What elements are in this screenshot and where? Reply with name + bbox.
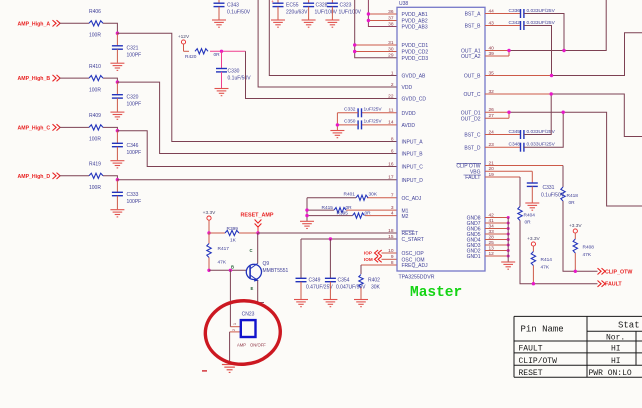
svg-text:R402: R402	[368, 278, 380, 284]
ground C328	[302, 20, 316, 27]
wire Q9 collector	[257, 233, 259, 263]
ground EC55	[271, 20, 285, 27]
svg-text:Q9: Q9	[263, 261, 270, 267]
wire PVDD_CD rail	[355, 0, 397, 58]
ground C321	[110, 63, 124, 70]
wire R418 to CLIP_OTW signal	[563, 201, 598, 271]
svg-text:C328: C328	[316, 3, 328, 9]
svg-text:R401: R401	[344, 191, 356, 197]
wire R409 to junction	[103, 127, 117, 130]
wire top rail to VDD pin 2	[258, 0, 397, 87]
svg-text:OUT_D1: OUT_D1	[461, 110, 481, 116]
svg-text:R415: R415	[322, 205, 334, 211]
resistor R417 47K	[208, 233, 210, 244]
node CN23 branch	[229, 269, 232, 272]
svg-text:R408: R408	[583, 245, 595, 251]
wire Q9 emitter	[257, 280, 259, 304]
connector CN23	[241, 320, 256, 337]
svg-text:38: 38	[388, 21, 394, 27]
wire R420 to GVDD_CD pin 22	[246, 51, 398, 98]
svg-text:36: 36	[388, 9, 394, 15]
ground C332 C350	[330, 131, 344, 138]
ground C331	[525, 203, 539, 210]
wire AMP_High_D to R419	[60, 175, 90, 177]
capacitor C354 0.047UF/50V	[329, 239, 331, 278]
svg-text:R419: R419	[89, 162, 101, 168]
svg-text:R417: R417	[218, 246, 230, 252]
svg-text:C333: C333	[127, 192, 139, 198]
svg-text:220u/63V: 220u/63V	[286, 10, 308, 16]
svg-text:100PF: 100PF	[127, 53, 142, 59]
svg-text:Master: Master	[410, 285, 462, 301]
svg-text:C346: C346	[127, 143, 139, 149]
svg-text:C: C	[250, 248, 253, 253]
wire CN23 pin 2 to ground	[230, 331, 241, 333]
svg-text:R406: R406	[89, 9, 101, 15]
svg-text:BST_D: BST_D	[464, 145, 481, 151]
svg-text:OUT_C: OUT_C	[464, 92, 481, 98]
svg-text:7: 7	[391, 193, 394, 199]
wire FAULT from pin 19	[485, 176, 520, 178]
svg-text:HI: HI	[611, 357, 621, 366]
svg-text:14: 14	[388, 120, 394, 126]
svg-text:0.47UF/25V: 0.47UF/25V	[306, 285, 333, 291]
resistor R399 1K	[209, 232, 225, 234]
capacitor C328 1UF/100V	[308, 0, 310, 3]
svg-text:INPUT_B: INPUT_B	[402, 152, 424, 158]
svg-text:0.1uF/50V: 0.1uF/50V	[227, 10, 251, 16]
power +3.3V R408	[573, 229, 577, 233]
svg-text:100R: 100R	[89, 33, 101, 39]
node OUT_A BST	[562, 49, 565, 52]
svg-text:BST_B: BST_B	[465, 24, 482, 30]
svg-text:C343: C343	[227, 3, 239, 9]
capacitor C332 1uF/25V	[358, 108, 361, 117]
wire BST_A to OUT_A	[524, 14, 564, 51]
svg-text:C342: C342	[509, 20, 521, 26]
junction node AMP_High_D	[116, 178, 119, 181]
svg-text:RESET: RESET	[519, 369, 543, 378]
ground C346	[110, 161, 124, 168]
svg-text:EC55: EC55	[286, 3, 299, 9]
svg-text:BST_A: BST_A	[465, 12, 482, 18]
wire INPUT_D route	[117, 179, 397, 181]
capacitor EC55 220u/63V electrolytic	[277, 0, 279, 3]
svg-text:47K: 47K	[541, 265, 550, 271]
svg-text:IOP: IOP	[364, 251, 372, 256]
wire OUT_A2 join	[485, 55, 509, 57]
svg-text:PWR ON:LO: PWR ON:LO	[589, 369, 632, 378]
capacitor C320 100PF	[116, 82, 118, 95]
wire OUT_B	[485, 75, 552, 77]
svg-text:30K: 30K	[369, 191, 378, 197]
svg-text:C354: C354	[338, 278, 350, 284]
node M1 junction	[305, 208, 308, 211]
svg-text:0R: 0R	[214, 52, 221, 58]
junction node AMP_High_B	[116, 80, 119, 83]
capacitor C331 0.1uF/50V	[527, 183, 538, 186]
svg-text:OUT_D2: OUT_D2	[461, 117, 481, 123]
svg-text:AMP_High_B: AMP_High_B	[18, 76, 51, 82]
node AVDD gnd junction	[336, 123, 339, 126]
capacitor C348 0.033UF/25V BST_D	[485, 146, 521, 148]
svg-text:C323: C323	[340, 3, 352, 9]
svg-text:C345: C345	[509, 129, 521, 135]
wire VBG pin 20	[485, 170, 532, 172]
svg-text:C320: C320	[127, 95, 139, 101]
resistor R404 0R	[518, 207, 522, 221]
junction node AMP_High_A	[116, 32, 119, 35]
svg-text:INPUT_D: INPUT_D	[402, 178, 424, 184]
node R399 left	[207, 231, 210, 234]
svg-text:100R: 100R	[89, 137, 101, 143]
svg-text:100R: 100R	[89, 185, 101, 191]
wire RESET to IC pin 18	[258, 232, 397, 234]
svg-text:Nor.: Nor.	[606, 334, 625, 343]
node base junction	[207, 269, 210, 272]
node RESET junction	[256, 231, 259, 234]
wire OC_ADJ M1 M2 to ground	[306, 198, 308, 221]
svg-text:+: +	[271, 0, 274, 4]
svg-text:B: B	[231, 264, 234, 269]
resistor R420 0R	[195, 49, 208, 54]
wire OUT_C	[485, 93, 551, 95]
wire BST_C to OUT_C	[524, 94, 551, 135]
svg-text:47K: 47K	[218, 260, 227, 266]
svg-text:100R: 100R	[89, 87, 101, 93]
transistor Q9 MMBT5551	[246, 263, 261, 281]
wire R420 to node	[210, 50, 246, 52]
svg-text:Stat: Stat	[618, 321, 640, 331]
svg-text:FAULT: FAULT	[605, 282, 622, 288]
svg-text:29: 29	[388, 53, 394, 59]
svg-text:CLIP_OTW: CLIP_OTW	[605, 269, 632, 275]
ground C333	[110, 210, 124, 217]
capacitor C330 0.1uF/50V	[221, 51, 223, 68]
svg-text:C336: C336	[509, 8, 521, 14]
svg-text:1UF/100V: 1UF/100V	[315, 10, 338, 16]
node OUT_D BST	[562, 111, 565, 114]
svg-text:C330: C330	[228, 69, 240, 75]
wire INPUT_B route	[117, 82, 397, 153]
svg-text:2: 2	[231, 328, 236, 331]
junction node VDD12	[220, 50, 223, 53]
resistor R402 30K on FREQ_ADJ	[361, 264, 397, 266]
svg-text:INPUT_C: INPUT_C	[402, 165, 424, 171]
svg-text:MMBT5551: MMBT5551	[263, 268, 289, 274]
svg-text:0.1uF/50V: 0.1uF/50V	[228, 76, 252, 82]
svg-text:0R: 0R	[569, 200, 576, 206]
svg-text:PVDD_CD1: PVDD_CD1	[402, 43, 429, 49]
capacitor C349 0.47UF/25V	[300, 239, 302, 278]
svg-text:R395: R395	[337, 211, 349, 217]
svg-text:FREQ_ADJ: FREQ_ADJ	[402, 263, 429, 269]
svg-text:0R: 0R	[365, 211, 372, 217]
svg-text:PVDD_CD2: PVDD_CD2	[402, 50, 429, 56]
capacitor C346 100PF	[116, 131, 118, 144]
svg-text:1uF/25V: 1uF/25V	[364, 119, 383, 125]
svg-text:AMP_High_A: AMP_High_A	[18, 21, 51, 27]
svg-text:0.1uF/50V: 0.1uF/50V	[541, 193, 565, 199]
capacitor C342 0.033UF/25V BST_B	[485, 25, 521, 27]
junction node AMP_High_C	[116, 129, 119, 132]
svg-text:M2: M2	[402, 214, 409, 220]
svg-text:R410: R410	[89, 64, 101, 70]
power +3.3V reset	[207, 216, 211, 220]
wire OUT_A	[485, 50, 509, 52]
svg-text:9: 9	[391, 254, 394, 260]
resistor R395 0R on M2	[365, 215, 397, 217]
svg-text:0.047UF/50V: 0.047UF/50V	[336, 285, 366, 291]
capacitor C336 0.033UF/25V BST_A	[485, 13, 521, 15]
capacitor C343 0.1uF/50V	[218, 0, 220, 3]
table pin status	[514, 316, 642, 377]
svg-text:0R: 0R	[346, 205, 353, 211]
svg-text:+3.3V: +3.3V	[203, 210, 216, 216]
svg-text:+3.3V: +3.3V	[527, 236, 540, 242]
svg-text:OC_ADJ: OC_ADJ	[402, 196, 422, 202]
svg-text:FAULT: FAULT	[465, 175, 480, 181]
svg-text:BST_C: BST_C	[464, 133, 481, 139]
svg-text:E: E	[251, 286, 254, 291]
ground R402	[354, 300, 368, 307]
resistor R414 47K	[532, 246, 534, 251]
svg-text:GVDD_AB: GVDD_AB	[402, 74, 427, 80]
ground C320	[110, 112, 124, 119]
svg-text:16: 16	[388, 161, 394, 167]
wire C332 C350 ground bus	[336, 113, 338, 130]
wire C_START pin 15	[301, 238, 397, 240]
wire GND bus	[485, 217, 508, 219]
svg-text:1: 1	[391, 70, 394, 76]
svg-text:PVDD_AB3: PVDD_AB3	[402, 25, 428, 31]
svg-text:1UF/100V: 1UF/100V	[339, 10, 362, 16]
wire top rail to GVDD_AB pin 1	[269, 0, 397, 76]
svg-text:R418: R418	[567, 193, 579, 199]
svg-text:1K: 1K	[230, 238, 237, 244]
resistor R401 30K	[367, 197, 397, 199]
emitter terminator	[253, 302, 264, 304]
node M2 junction	[305, 214, 308, 217]
svg-text:15: 15	[388, 234, 394, 240]
svg-text:GVDD_CD: GVDD_CD	[402, 97, 427, 103]
wire R419 to junction	[103, 176, 117, 180]
ground C343	[212, 20, 226, 27]
svg-text:18: 18	[388, 228, 394, 234]
svg-text:100PF: 100PF	[127, 199, 142, 205]
svg-text:ON/OFF: ON/OFF	[250, 343, 266, 348]
svg-text:4: 4	[391, 210, 394, 216]
capacitor C321 100PF	[116, 33, 118, 46]
signal CLIP_OTW	[598, 268, 606, 274]
ground C349	[294, 300, 308, 307]
svg-text:R409: R409	[89, 113, 101, 119]
svg-text:R404: R404	[524, 213, 536, 219]
svg-text:31: 31	[388, 40, 394, 46]
svg-text:PVDD_CD3: PVDD_CD3	[402, 56, 429, 62]
ground M1 M2	[300, 221, 314, 228]
wire BST_B to OUT_B	[524, 26, 552, 76]
svg-text:0R: 0R	[525, 220, 532, 226]
svg-text:30: 30	[388, 46, 394, 52]
svg-text:100PF: 100PF	[127, 102, 142, 108]
svg-text:100PF: 100PF	[127, 150, 142, 156]
svg-text:8: 8	[391, 260, 394, 266]
svg-text:FAULT: FAULT	[519, 345, 543, 354]
svg-text:C332: C332	[344, 107, 356, 113]
svg-text:+3.3V: +3.3V	[569, 223, 582, 229]
wire AMP_High_A to R406	[60, 22, 90, 24]
svg-text:CN23: CN23	[242, 312, 255, 318]
wire base to CN23 pin 1	[229, 270, 231, 326]
capacitor C350 1uF/25V	[358, 120, 361, 129]
node C354 junction	[329, 237, 332, 240]
wire base	[209, 269, 246, 271]
capacitor C333 100PF	[116, 180, 118, 193]
svg-text:+12V: +12V	[178, 34, 190, 40]
svg-text:OUT_B: OUT_B	[464, 74, 481, 80]
svg-text:U38: U38	[399, 1, 408, 7]
node OUT_C BST	[550, 92, 553, 95]
svg-text:C_START: C_START	[402, 237, 424, 243]
svg-text:11: 11	[389, 108, 394, 114]
node PVDD_CD junctions	[353, 43, 356, 46]
wire CLIP_OTW from pin 21	[485, 165, 563, 167]
wire +12V to R420	[183, 44, 185, 51]
red annotation circle	[203, 298, 282, 366]
svg-text:R420: R420	[185, 54, 197, 60]
node OUT_D junction	[507, 111, 510, 114]
wire PVDD_AB rail	[368, 0, 397, 27]
svg-text:1uF/25V: 1uF/25V	[364, 107, 383, 113]
svg-text:OUT_A2: OUT_A2	[461, 54, 481, 60]
svg-text:10: 10	[388, 248, 394, 254]
svg-text:OSC_IOP: OSC_IOP	[402, 251, 425, 257]
svg-text:IOM: IOM	[364, 257, 373, 262]
resistor R406	[89, 21, 103, 26]
node OUT_A junction	[507, 49, 510, 52]
node CLIP pullup	[574, 270, 577, 273]
wire INPUT_A route	[117, 33, 397, 141]
signal FAULT	[598, 281, 606, 287]
svg-text:8: 8	[391, 136, 394, 142]
svg-text:PVDD_AB1: PVDD_AB1	[402, 12, 428, 18]
svg-text:6: 6	[391, 148, 394, 154]
wire AVDD pin 14	[362, 124, 398, 126]
wire INPUT_C route	[117, 131, 397, 167]
svg-text:C321: C321	[127, 46, 139, 52]
power +12V	[181, 40, 185, 44]
svg-text:TPA3255DDVR: TPA3255DDVR	[399, 275, 435, 281]
svg-text:3: 3	[391, 205, 394, 211]
svg-text:AMP_High_D: AMP_High_D	[18, 174, 51, 180]
node FAULT pullup	[532, 282, 535, 285]
node PVDD_AB junctions	[367, 12, 370, 15]
ground C330	[215, 89, 229, 96]
wire R410 to junction	[103, 78, 117, 82]
svg-text:R414: R414	[541, 257, 553, 263]
svg-text:30K: 30K	[371, 285, 381, 291]
capacitor C345 0.033UF/25V BST_C	[485, 134, 521, 136]
resistor R410	[89, 76, 103, 81]
svg-text:AMP: AMP	[237, 343, 246, 348]
wire AMP_High_B to R410	[60, 77, 90, 79]
resistor R408 47K	[574, 233, 576, 239]
svg-text:R399: R399	[227, 226, 239, 232]
ground C354	[323, 300, 337, 307]
svg-text:AMP_High_C: AMP_High_C	[18, 125, 51, 131]
svg-text:C348: C348	[509, 142, 521, 148]
ground CN23	[222, 365, 237, 373]
wire R404 to FAULT signal	[520, 221, 598, 284]
svg-text:1: 1	[232, 322, 237, 325]
red mark	[202, 370, 207, 372]
wire AMP_High_C to R409	[60, 126, 90, 128]
capacitor C323 1UF/100V	[331, 0, 333, 3]
resistor R418 0R	[561, 187, 565, 201]
svg-text:Pin Name: Pin Name	[521, 325, 564, 335]
wire DVDD pin 11	[362, 112, 398, 114]
svg-text:C350: C350	[344, 119, 356, 125]
power +3.3V R414	[531, 242, 535, 246]
resistor R415 0R on M1	[346, 209, 397, 211]
svg-text:47K: 47K	[583, 252, 592, 258]
svg-text:C349: C349	[309, 278, 321, 284]
wire +3.3V to R399 node	[208, 220, 210, 233]
svg-text:INPUT_A: INPUT_A	[402, 140, 424, 146]
svg-text:GND1: GND1	[467, 254, 481, 260]
wire R406 to junction	[103, 23, 117, 33]
resistor R419	[89, 173, 103, 178]
wire OUT_D2 join	[485, 117, 509, 119]
svg-text:AVDD: AVDD	[402, 123, 416, 129]
svg-text:HI: HI	[611, 345, 621, 354]
svg-text:37: 37	[388, 15, 394, 21]
svg-text:CLIP/OTW: CLIP/OTW	[519, 357, 558, 366]
resistor R409	[89, 125, 103, 130]
wire OUT_D	[485, 111, 509, 113]
svg-text:2: 2	[391, 82, 394, 88]
svg-text:DVDD: DVDD	[402, 111, 417, 117]
svg-text:RESET_AMP: RESET_AMP	[241, 213, 274, 219]
svg-text:22: 22	[388, 93, 394, 99]
ground C323	[325, 20, 339, 27]
svg-text:VDD: VDD	[402, 85, 413, 91]
svg-text:C331: C331	[543, 185, 555, 191]
wire BST_D to OUT_D	[524, 112, 563, 147]
svg-text:17: 17	[388, 175, 394, 181]
op-amp U38 TPA3255DDVR	[397, 7, 485, 271]
node OUT_B BST	[550, 74, 553, 77]
ground U38 GND pins	[501, 262, 515, 269]
